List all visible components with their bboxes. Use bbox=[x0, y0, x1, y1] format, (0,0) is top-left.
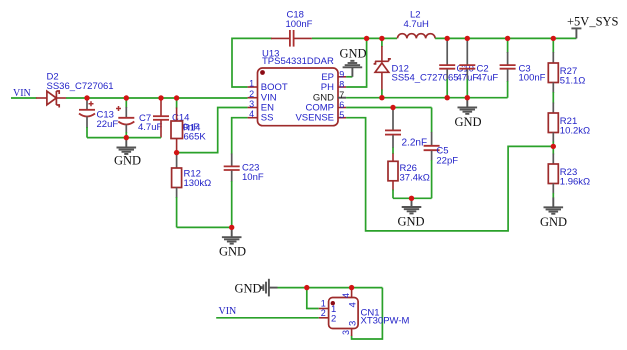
node VIN (input net label) bbox=[13, 88, 31, 99]
pin 8 PH bbox=[338, 86, 346, 88]
svg-text:130kΩ: 130kΩ bbox=[184, 178, 212, 189]
svg-text:+5V_SYS: +5V_SYS bbox=[567, 15, 619, 29]
svg-text:SS54_C727065: SS54_C727065 bbox=[392, 73, 459, 84]
junction EN node R14/R12 bbox=[174, 150, 179, 155]
capacitor C23 10nF bbox=[224, 154, 264, 228]
svg-text:100nF: 100nF bbox=[286, 19, 313, 30]
svg-text:665K: 665K bbox=[184, 132, 207, 143]
junction VIN rail / C13 bbox=[84, 95, 89, 100]
svg-text:4: 4 bbox=[348, 302, 359, 307]
junction top rail / C2 bbox=[465, 36, 470, 41]
svg-text:3: 3 bbox=[249, 99, 254, 109]
junction top rail / PH branch bbox=[364, 36, 369, 41]
svg-text:6: 6 bbox=[339, 100, 344, 110]
junction VIN rail / C14 bbox=[158, 95, 163, 100]
svg-text:GND: GND bbox=[235, 282, 262, 296]
svg-text:10nF: 10nF bbox=[242, 172, 264, 183]
junction gnd wire / pin4 bbox=[349, 285, 354, 290]
capacitor C2 47uF bbox=[459, 38, 498, 97]
junction top rail / C3 bbox=[505, 36, 510, 41]
pin 3 bottom bbox=[351, 329, 353, 337]
pin 9 EP bbox=[338, 76, 346, 78]
wire R12 bottom to gnd node bbox=[177, 226, 232, 228]
svg-text:PH: PH bbox=[321, 82, 334, 93]
resistor R27 51.1 bbox=[548, 38, 585, 93]
wire R27 to R21 bbox=[552, 92, 554, 104]
svg-text:VSENSE: VSENSE bbox=[295, 113, 334, 124]
wire EP to ground bbox=[346, 76, 352, 78]
svg-text:2: 2 bbox=[331, 313, 336, 324]
svg-text:GND: GND bbox=[455, 115, 482, 129]
svg-text:7: 7 bbox=[339, 90, 344, 100]
svg-text:10.2kΩ: 10.2kΩ bbox=[560, 126, 590, 137]
svg-text:SS: SS bbox=[261, 113, 274, 124]
svg-text:TPS54331DDAR: TPS54331DDAR bbox=[262, 56, 334, 67]
capacitor C14 100nF bbox=[153, 98, 199, 138]
svg-text:22uF: 22uF bbox=[97, 119, 119, 130]
wire VIN to D2 anode bbox=[11, 97, 37, 99]
ground GND under comp network bbox=[398, 198, 425, 228]
IC U13 TPS54331DDAR bbox=[248, 49, 347, 126]
svg-text:4.7uF: 4.7uF bbox=[138, 122, 162, 133]
ground GND under C7 bbox=[114, 138, 141, 168]
svg-text:4.7uH: 4.7uH bbox=[404, 19, 429, 30]
capacitor C13 22uF polarized bbox=[79, 98, 118, 138]
wire pin7 gnd rail bbox=[346, 97, 508, 99]
capacitor C7 4.7uF polarized bbox=[116, 98, 162, 138]
svg-text:2: 2 bbox=[321, 308, 326, 318]
capacitor C3 100nF bbox=[500, 38, 546, 97]
svg-text:2: 2 bbox=[249, 89, 254, 99]
svg-text:XT30PW-M: XT30PW-M bbox=[361, 316, 410, 327]
pin 4 top bbox=[351, 288, 353, 298]
svg-text:5: 5 bbox=[339, 110, 344, 120]
junction gnd rail / C10 bbox=[445, 95, 450, 100]
svg-text:51.1Ω: 51.1Ω bbox=[560, 76, 586, 87]
junction VIN rail / R14 bbox=[174, 95, 179, 100]
diode D2 SS36 bbox=[36, 72, 114, 108]
ground GND at EP (flipped up) bbox=[340, 47, 367, 77]
junction top rail / D12 bbox=[379, 36, 384, 41]
svg-text:9: 9 bbox=[339, 69, 344, 79]
capacitor 2.2nF bbox=[385, 108, 427, 155]
svg-text:GND: GND bbox=[398, 214, 425, 228]
resistor R21 10.2k bbox=[548, 103, 590, 147]
junction feedback node R21/R23 bbox=[551, 144, 556, 149]
svg-text:8: 8 bbox=[339, 80, 344, 90]
resistor R26 37.4k bbox=[388, 154, 430, 199]
wire C18 to PH node and top rail bbox=[312, 37, 397, 39]
connector CN1 XT30PW-M bbox=[319, 288, 410, 336]
node VIN net label at CN1 bbox=[219, 306, 237, 317]
svg-text:GND: GND bbox=[540, 215, 567, 229]
junction gnd rail / D12 bbox=[379, 95, 384, 100]
pin 3 EN bbox=[248, 107, 258, 109]
svg-text:37.4kΩ: 37.4kΩ bbox=[400, 172, 430, 183]
junction top rail / R27 bbox=[551, 36, 556, 41]
wire VIN to CN1 pin 2 bbox=[216, 317, 319, 319]
pin 6 COMP bbox=[338, 107, 346, 109]
wire SS pin to C23 bbox=[232, 118, 248, 155]
pin 4 SS bbox=[248, 117, 258, 119]
junction comp gnd node bbox=[409, 196, 414, 201]
svg-text:BOOT: BOOT bbox=[261, 82, 288, 93]
svg-text:1: 1 bbox=[249, 78, 254, 88]
inductor L2 4.7uH bbox=[398, 10, 436, 39]
resistor R12 130k bbox=[172, 153, 212, 228]
wire PH branch down to pin 8 bbox=[346, 38, 367, 87]
svg-text:3: 3 bbox=[348, 321, 359, 326]
svg-text:1.96kΩ: 1.96kΩ bbox=[560, 177, 590, 188]
svg-text:100nF: 100nF bbox=[519, 73, 546, 84]
node +5V_SYS power flag bbox=[567, 15, 619, 39]
wire CN1 pin3 loop to gnd bbox=[352, 288, 383, 339]
junction gnd wire / pin1 branch bbox=[304, 285, 309, 290]
junction COMP / 2.2nF bbox=[390, 105, 395, 110]
svg-text:22pF: 22pF bbox=[436, 156, 458, 167]
capacitor C5 22pF bbox=[424, 108, 459, 199]
svg-text:4: 4 bbox=[249, 109, 254, 119]
wire VSENSE feedback path bbox=[346, 118, 553, 231]
pin 2 VIN bbox=[248, 97, 258, 99]
svg-text:3: 3 bbox=[341, 330, 351, 335]
svg-text:GND: GND bbox=[219, 245, 246, 259]
junction gnd node R12/C23 bbox=[229, 225, 234, 230]
wire COMP pin to network bbox=[346, 107, 432, 109]
svg-text:4: 4 bbox=[341, 293, 351, 298]
junction VIN rail / C7 bbox=[124, 95, 129, 100]
svg-text:GND: GND bbox=[340, 47, 367, 61]
wire EN pin to divider bbox=[177, 108, 248, 153]
pin 1 bbox=[319, 308, 329, 310]
wire L2 to +5V rail bbox=[435, 37, 576, 39]
ground GND under R23 bbox=[540, 198, 567, 229]
junction top rail / C10 bbox=[445, 36, 450, 41]
capacitor C10 47uF bbox=[439, 38, 478, 97]
svg-text:SS36_C727061: SS36_C727061 bbox=[47, 81, 114, 92]
wire BOOT pin to C18 bbox=[232, 38, 272, 87]
svg-text:47uF: 47uF bbox=[477, 73, 499, 84]
wire GND flag to CN1 pins bbox=[278, 287, 383, 289]
diode D12 SS54 bbox=[374, 38, 459, 97]
pin 7 GND bbox=[338, 97, 346, 99]
wire comp network ground rail bbox=[393, 197, 432, 199]
svg-text:GND: GND bbox=[114, 153, 141, 167]
pin 1 BOOT bbox=[248, 86, 258, 88]
node GND net flag at CN1 (left-pointing) bbox=[235, 279, 278, 297]
ground GND under C23 bbox=[219, 227, 246, 258]
junction gnd rail / C2 with gnd stem bbox=[465, 95, 470, 100]
wire input caps ground rail bbox=[87, 137, 161, 139]
svg-text:VIN: VIN bbox=[219, 306, 237, 317]
resistor R14 665K bbox=[171, 98, 206, 153]
capacitor C18 100nF bbox=[271, 10, 313, 47]
pin 2 bbox=[319, 317, 329, 319]
resistor R23 1.96k bbox=[548, 146, 590, 198]
ground GND under C2 bbox=[455, 98, 482, 129]
wire VIN rail bbox=[66, 97, 248, 99]
svg-text:2.2nF: 2.2nF bbox=[402, 138, 428, 149]
wire branch to CN1 pin 1 bbox=[307, 288, 319, 309]
pin 5 VSENSE bbox=[338, 117, 346, 119]
junction ground rail / C7 bbox=[124, 135, 129, 140]
